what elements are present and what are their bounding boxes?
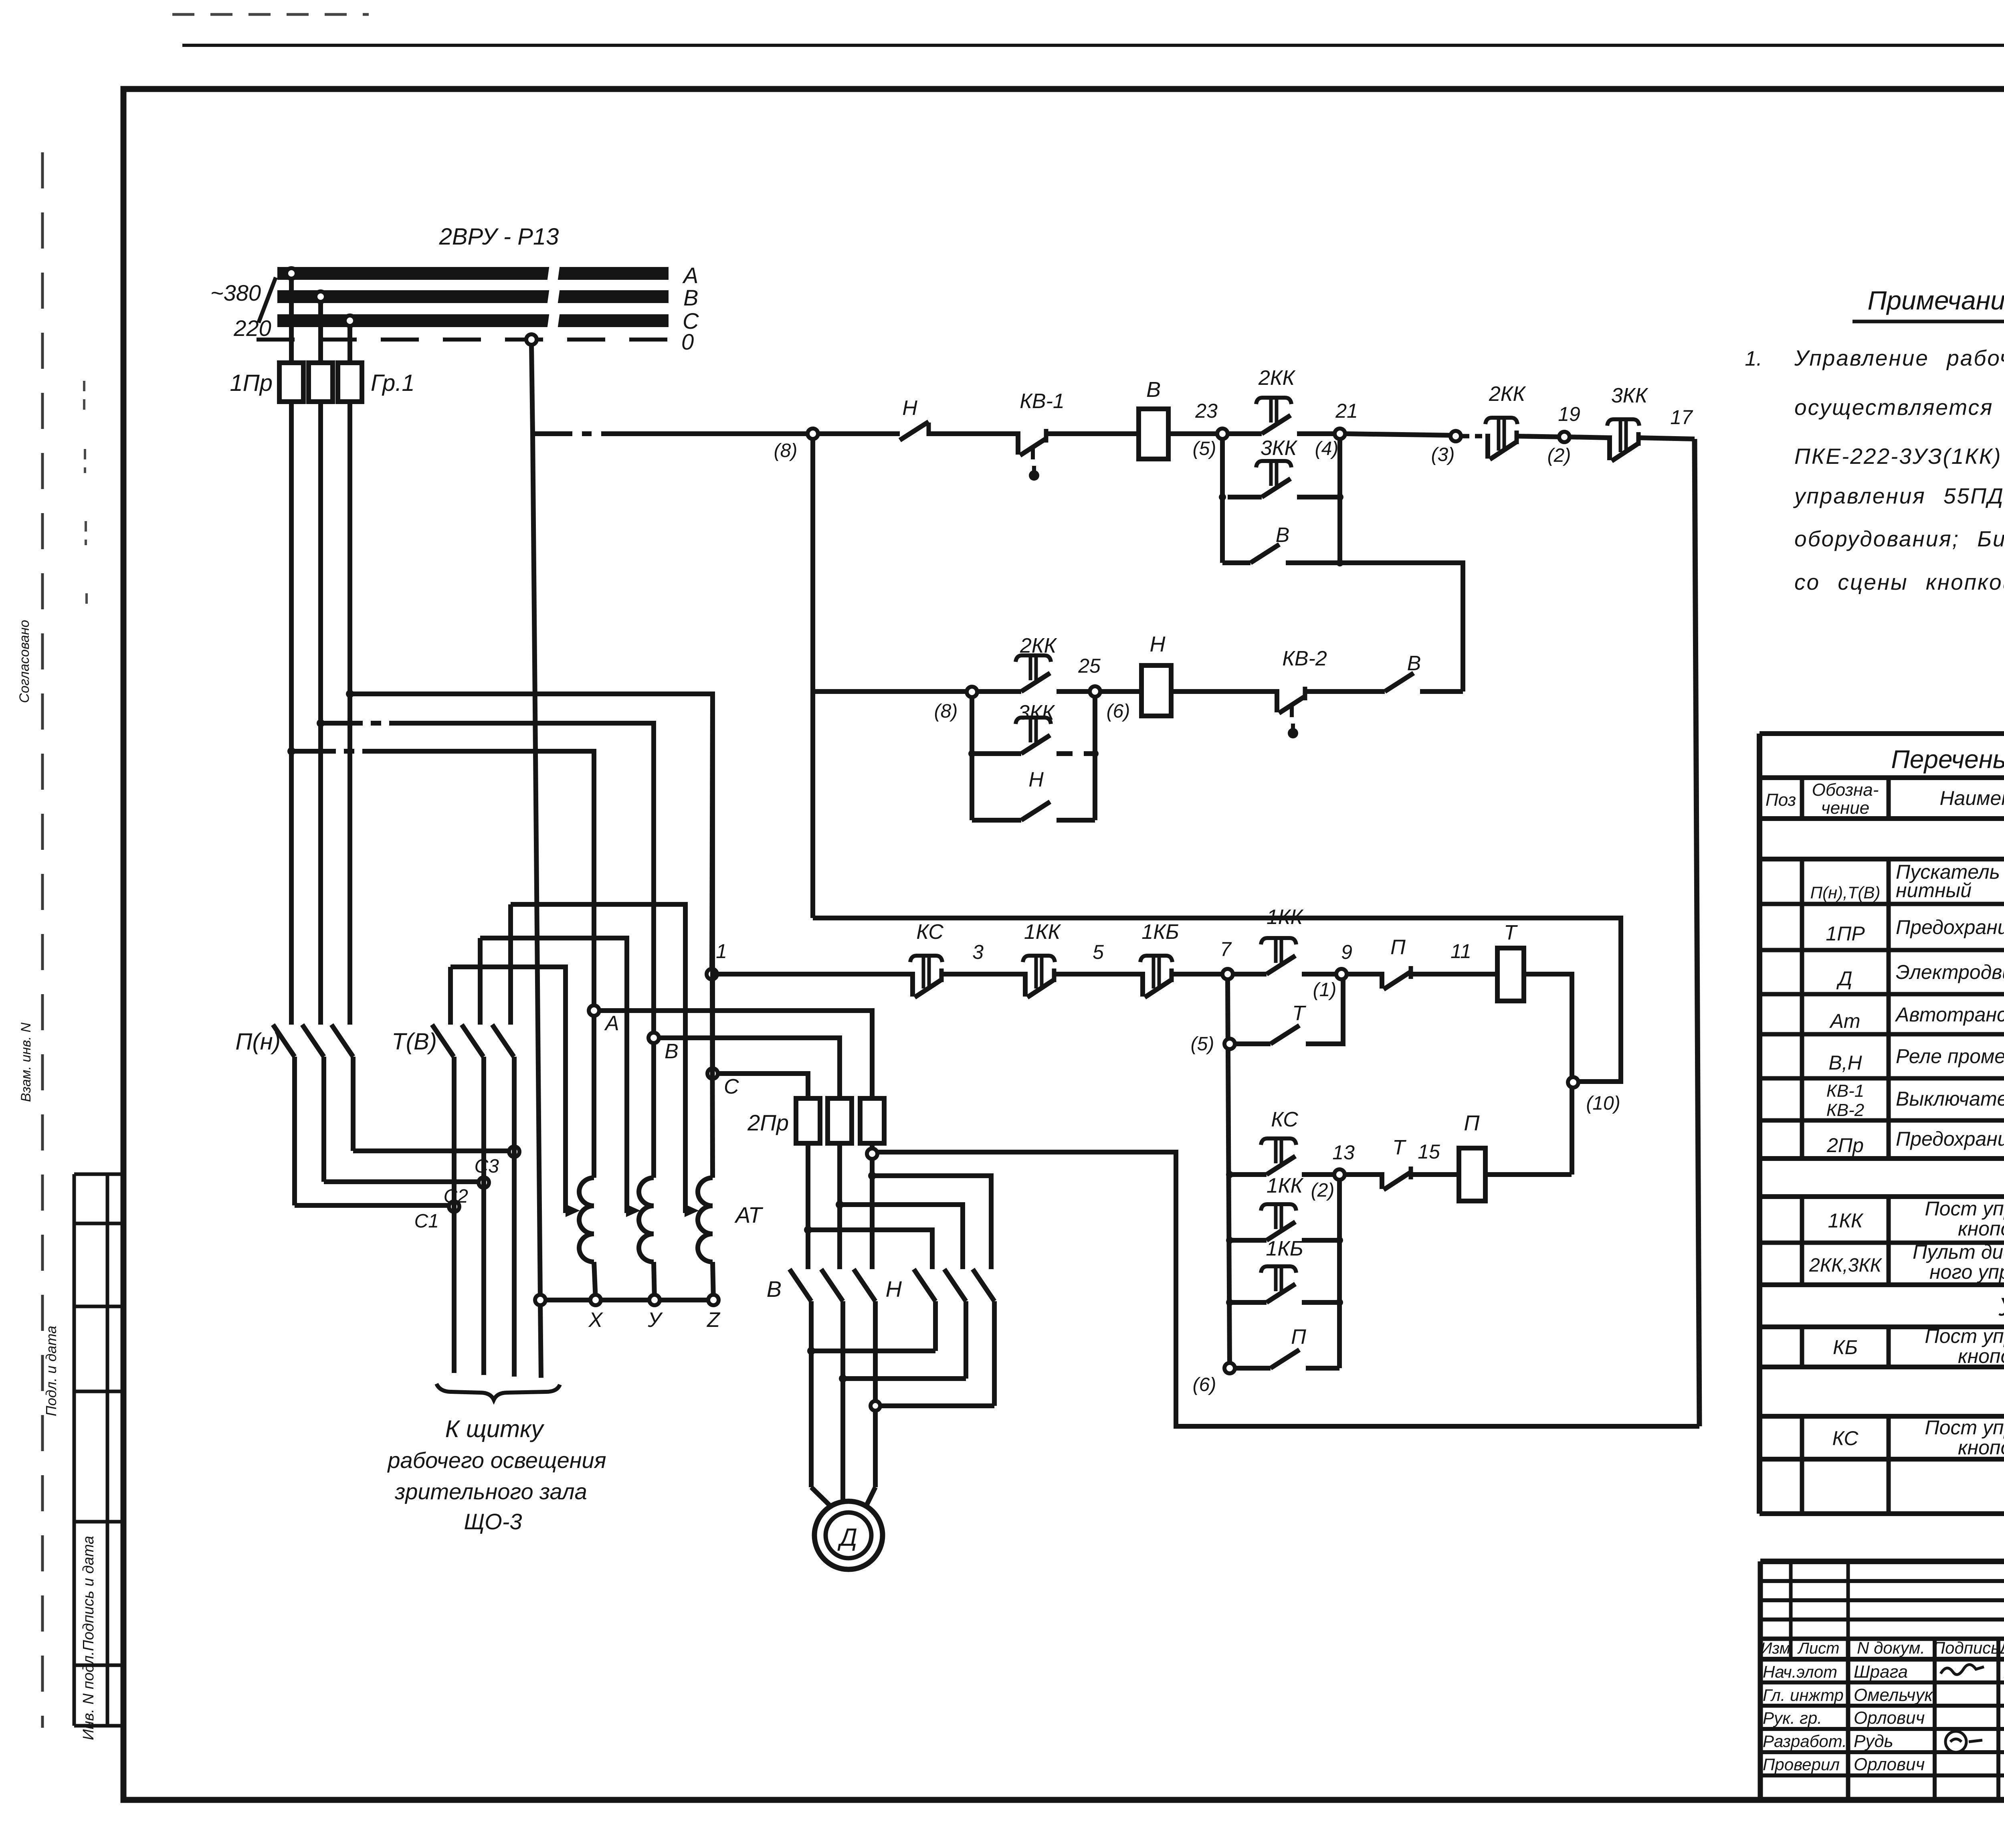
wire lower seg2 (1057, 689, 1095, 694)
svg-text:чение: чение (1821, 798, 1869, 818)
svg-text:(5): (5) (1191, 1033, 1214, 1055)
fuse 1Пр pole3 (338, 363, 362, 402)
relay coil В (1139, 409, 1168, 459)
svg-text:П: П (1464, 1111, 1480, 1135)
svg-text:рабочего освещения: рабочего освещения (387, 1448, 606, 1473)
brace К щитку (436, 1384, 560, 1400)
wire lower branch start (813, 689, 972, 694)
node tap B (315, 291, 326, 302)
wire В3 lower (873, 1301, 878, 1487)
pushbutton 1КБ NO branch (1267, 1284, 1295, 1302)
node (5) rowA (1224, 1039, 1235, 1049)
wire Т(В) pole3 top (508, 904, 513, 1025)
wire T branch left (1235, 1041, 1271, 1046)
wire Н1 feed (808, 1230, 932, 1269)
wire neutral output (540, 1303, 541, 1378)
wire 1КБ branch (1230, 1300, 1267, 1305)
svg-text:Пост управления: Пост управления (1925, 1197, 2004, 1220)
svg-text:Ат: Ат (1829, 1010, 1861, 1032)
svg-text:1КК: 1КК (1267, 906, 1304, 929)
svg-text:7: 7 (1220, 938, 1232, 960)
wire rowA seg1 (941, 972, 1025, 977)
svg-text:(5): (5) (1193, 438, 1216, 459)
wire phase B horizontal (321, 723, 654, 1038)
wire lower seg5 (1305, 689, 1385, 694)
svg-text:Подпись и дата: Подпись и дата (80, 1536, 97, 1651)
svg-text:со сцены кнопкой ПКЕ-722-2У: со сцены кнопкой ПКЕ-722-2УЗ(кс). (1794, 570, 2004, 594)
left stamp grid (74, 1174, 123, 1726)
wire dashes after (3) (1462, 434, 1489, 439)
node 13 (1334, 1169, 1345, 1180)
contact П NC rowA (1380, 972, 1384, 989)
svg-text:Н: Н (886, 1276, 902, 1302)
limit switch КВ-2 (1275, 689, 1279, 712)
svg-text:К щитку: К щитку (445, 1415, 545, 1442)
svg-text:(8): (8) (934, 701, 958, 722)
wire 3КК branch right (1297, 495, 1340, 499)
wire AT coil3 bottom (713, 1262, 713, 1300)
motor Д (814, 1501, 883, 1569)
contactor Т(В) pole3 (492, 1025, 514, 1057)
node tap 0 (526, 334, 537, 345)
wire С down to winding (712, 979, 713, 1178)
wire Т(В) pole2 top (478, 938, 483, 1025)
wire rowB right vertical (1337, 1180, 1342, 1368)
wire 1КК branch (1230, 1238, 1267, 1243)
wire 25 down (1093, 697, 1097, 820)
wire tap link 3 (511, 904, 685, 1213)
svg-text:(2): (2) (1311, 1180, 1335, 1201)
contactor В pole3 (854, 1269, 875, 1301)
wire rowA seg2 (1054, 972, 1143, 977)
svg-text:Взам. инв. N: Взам. инв. N (18, 1023, 34, 1102)
svg-text:3КК: 3КК (1611, 384, 1649, 407)
limit switch КВ-1 (1016, 431, 1020, 455)
svg-text:(8): (8) (774, 440, 798, 461)
wire phase C to row A (712, 694, 713, 969)
svg-text:У: У (647, 1308, 663, 1332)
svg-text:0: 0 (681, 329, 694, 354)
relay coil Н (1141, 665, 1171, 716)
contactor Н pole3 (973, 1269, 994, 1301)
node 3КК branch right (1091, 750, 1099, 757)
wire 3КК lower dashed (1057, 751, 1095, 756)
node (10) (1568, 1077, 1578, 1088)
svg-text:2КК: 2КК (1020, 634, 1058, 657)
node rowB left (1226, 1171, 1233, 1178)
node (3) (1450, 431, 1461, 441)
svg-text:Наименование: Наименование (1939, 787, 2004, 809)
svg-text:Орлович: Орлович (1854, 1708, 1925, 1728)
contact Н NO lower (1021, 802, 1050, 820)
node bus left (535, 1295, 545, 1305)
node Н1 feed (804, 1226, 812, 1234)
svg-text:Предохранитель: Предохранитель (1896, 916, 2004, 938)
AT tap arrow 2 (627, 1208, 635, 1213)
wire С1 link (295, 1203, 454, 1208)
bus bar phase А (277, 266, 669, 281)
svg-text:Шрага: Шрага (1854, 1662, 1908, 1682)
svg-text:П: П (1390, 936, 1406, 959)
svg-text:Пост управления: Пост управления (1925, 1325, 2004, 1347)
node branch left (1219, 493, 1226, 501)
svg-text:Д: Д (1836, 967, 1852, 990)
wire AT coil2 bottom (654, 1262, 655, 1300)
svg-text:(4): (4) (1315, 438, 1339, 459)
wire 3КК branch left (1228, 495, 1262, 499)
node В branch right (1336, 559, 1343, 566)
wire phase C horizontal (350, 694, 713, 1074)
svg-text:А: А (682, 263, 698, 288)
wire fuse 2Пр1 down (806, 1143, 810, 1269)
svg-text:КБ: КБ (1833, 1336, 1858, 1359)
pushbutton КС NC rowA (910, 972, 915, 997)
contactor Т(В) pole2 (462, 1025, 483, 1057)
wire В to fuse2 (659, 1038, 840, 1098)
relay coil Т (1497, 948, 1524, 1001)
pushbutton 3КК NO branch (1262, 479, 1291, 497)
contact В NO branch (1250, 544, 1279, 563)
wire lower seg4 (1171, 689, 1277, 694)
fuse 1Пр pole1 (279, 363, 303, 402)
AT tap arrow 1 (566, 1208, 574, 1213)
node phase A tap (287, 747, 295, 755)
svg-text:Примечания:: Примечания: (1868, 285, 2004, 315)
node 7 (1222, 969, 1233, 979)
svg-text:1: 1 (716, 940, 727, 962)
fuse 2Пр pole3 (860, 1098, 884, 1143)
svg-text:зрительного зала: зрительного зала (394, 1479, 587, 1504)
node 1КБ branch left (1226, 1299, 1233, 1306)
svg-text:Д: Д (837, 1524, 857, 1551)
svg-text:(1): (1) (1313, 979, 1337, 1001)
wire 3КК lower left (972, 751, 1021, 756)
svg-text:Лист: Лист (1797, 1640, 1840, 1657)
bus bar phase В (277, 289, 669, 304)
svg-text:Реле промежуточное: Реле промежуточное (1896, 1045, 2004, 1068)
wire AT star bus (540, 1298, 713, 1302)
svg-text:Рук. гр.: Рук. гр. (1763, 1708, 1822, 1727)
sheet outer border left (faint) (41, 152, 44, 1728)
node А (589, 1005, 599, 1016)
svg-text:2ВРУ - Р13: 2ВРУ - Р13 (439, 224, 559, 250)
wire rowB seg3 (1345, 1172, 1382, 1177)
wire tap link 1 (450, 967, 566, 1213)
wire Н3 feed (872, 1176, 991, 1269)
node С2 (479, 1177, 489, 1188)
neutral bus 0 dashed (257, 338, 669, 342)
wire rowB seg1 (1230, 1172, 1267, 1177)
wire С to fuse1 (718, 1074, 808, 1098)
svg-text:17: 17 (1670, 406, 1693, 429)
node tie1 (807, 1347, 815, 1355)
svg-text:21: 21 (1335, 400, 1358, 422)
node С3 (509, 1146, 519, 1157)
contactor Т(В) pole1 (432, 1025, 454, 1057)
svg-text:Z: Z (706, 1308, 721, 1332)
wire fuse2 down (318, 402, 323, 1025)
svg-text:ПКЕ-222-3УЗ(1КК) и с пульто: ПКЕ-222-3УЗ(1КК) и с пультов дистанционн… (1794, 444, 2004, 469)
node 1КК branch left (1226, 1237, 1233, 1244)
svg-text:У Билетера: У Билетера (1998, 1292, 2004, 1321)
wire rowA seg4 (1233, 972, 1267, 977)
wire phase bottom rail (877, 1152, 1699, 1426)
node (8) top (808, 429, 818, 439)
wire tie1 (811, 1349, 935, 1353)
autotransformer winding 2 (639, 1178, 654, 1262)
wire rowA seg7 (1411, 972, 1497, 977)
svg-text:Инв. N подл.: Инв. N подл. (80, 1651, 97, 1740)
wire lower seg6 (1420, 689, 1463, 694)
equipment table grid (1760, 734, 2004, 1514)
svg-text:Изм: Изм (1761, 1640, 1790, 1657)
svg-text:Управление рабочим освещен: Управление рабочим освещением зрительног… (1794, 346, 2004, 370)
wire Н2 lower (964, 1301, 968, 1379)
wire lower seg3 (1100, 689, 1141, 694)
wire rail seg10 (1638, 438, 1695, 439)
svg-text:ЩО-3: ЩО-3 (464, 1509, 522, 1534)
wire П(н) pole1 lower (292, 1057, 297, 1205)
wire Т(В) pole1 lower (452, 1057, 457, 1373)
node tie2 (839, 1375, 847, 1383)
node tap C (345, 315, 355, 326)
wire Т(В) pole3 lower (512, 1057, 517, 1377)
pushbutton 1КК NO rowA (1267, 956, 1295, 974)
wire fuse1 down (289, 402, 294, 1025)
svg-text:(3): (3) (1431, 444, 1455, 465)
wire Н lower right (1057, 818, 1095, 823)
svg-text:Электродвигатель: Электродвигатель (1896, 961, 2004, 983)
svg-text:АТ: АТ (734, 1202, 764, 1227)
top margin scan dashes (172, 13, 369, 16)
wire rowA seg3 (1172, 972, 1228, 977)
svg-text:Автотрансформатор: Автотрансформатор (1895, 1003, 2004, 1026)
wire tie3 (880, 1403, 994, 1408)
svg-text:11: 11 (1450, 940, 1471, 962)
AT tap arrow 3 (685, 1208, 693, 1213)
wire rail seg5 (1228, 431, 1262, 436)
wire rowB seg4 (1411, 1172, 1459, 1177)
node Н2 feed (836, 1201, 844, 1209)
wire 7 down (1228, 979, 1230, 1368)
wire 1КК branch right (1302, 1238, 1339, 1243)
wire rowB seg2 (1302, 1172, 1339, 1177)
node 1КК branch right (1336, 1237, 1343, 1244)
svg-text:2Пр: 2Пр (747, 1110, 789, 1135)
svg-text:Подл. и дата: Подл. и дата (43, 1326, 59, 1416)
wire В down to winding (651, 1043, 656, 1178)
bus bar phase С (277, 313, 669, 328)
svg-text:3КК: 3КК (1018, 701, 1056, 724)
svg-text:КВ-2: КВ-2 (1282, 647, 1327, 670)
wire П branch right (1306, 1366, 1339, 1371)
node 1КБ branch right (1336, 1299, 1343, 1306)
svg-text:КВ-1: КВ-1 (1826, 1081, 1864, 1101)
pushbutton 1КБ NC rowA (1140, 972, 1145, 997)
node (6) rowB (1224, 1363, 1235, 1373)
pushbutton 2КК NO (1262, 415, 1291, 434)
svg-text:2КК: 2КК (1489, 382, 1527, 406)
node phase B tap (317, 719, 325, 727)
node В (648, 1033, 659, 1043)
svg-text:Т: Т (1504, 921, 1518, 944)
wire С3 link (353, 1148, 514, 1153)
node (8) lower (967, 687, 977, 697)
wire fuse 2Пр3 down (870, 1143, 875, 1269)
wire neutral drop (531, 345, 533, 434)
wire 1КБ branch right (1302, 1300, 1339, 1305)
svg-text:Нач.элот: Нач.элот (1763, 1662, 1837, 1681)
svg-text:Т: Т (1292, 1002, 1306, 1025)
svg-text:1КК: 1КК (1828, 1209, 1864, 1232)
svg-text:В: В (1146, 378, 1161, 402)
pushbutton 2КК NC break (1485, 434, 1490, 459)
wire В1 lower (809, 1301, 814, 1487)
wire T branch right (1306, 979, 1343, 1044)
svg-text:П(н),Т(В): П(н),Т(В) (1810, 883, 1881, 902)
wire phase A horizontal (291, 751, 594, 1011)
pushbutton 1КК NO branch (1267, 1222, 1295, 1240)
wire Н lower left (972, 818, 1021, 823)
title block grid (1760, 1561, 2004, 1800)
fuse 2Пр pole2 (828, 1098, 852, 1143)
svg-text:кнопочный: кнопочный (1958, 1436, 2004, 1459)
node 1 (707, 969, 717, 979)
wire motor lead1 (811, 1487, 830, 1506)
svg-text:220: 220 (233, 315, 271, 341)
wire phase1 bus to fuse (289, 279, 294, 363)
contact П NO branch (1271, 1350, 1299, 1368)
svg-text:23: 23 (1195, 400, 1218, 422)
svg-text:Н: Н (902, 396, 917, 420)
wire tap link 2 (480, 938, 627, 1213)
pushbutton 3КК NO lower (1021, 735, 1050, 754)
wire 23 down (1220, 439, 1225, 563)
contactor Н pole1 (914, 1269, 935, 1301)
svg-text:5: 5 (1093, 941, 1104, 963)
wire top rail left (531, 431, 572, 436)
relay coil П (1459, 1148, 1485, 1201)
wire С2 link (324, 1179, 484, 1184)
svg-text:1КБ: 1КБ (1266, 1237, 1303, 1260)
svg-text:Выключатель конечный: Выключатель конечный (1896, 1088, 2004, 1110)
node 25 (1090, 686, 1100, 697)
svg-text:КС: КС (1832, 1427, 1859, 1450)
svg-text:9: 9 (1341, 941, 1352, 963)
svg-text:Н: Н (1150, 632, 1166, 656)
svg-text:(6): (6) (1107, 701, 1130, 722)
svg-text:С3: С3 (475, 1156, 499, 1177)
svg-text:13: 13 (1332, 1141, 1355, 1164)
autotransformer winding 1 (579, 1178, 594, 1262)
wire rail seg8 (1517, 436, 1564, 437)
svg-text:Гр.1: Гр.1 (371, 370, 415, 396)
wire Н2 feed (840, 1205, 963, 1269)
svg-text:1КК: 1КК (1024, 920, 1062, 944)
wire rowA seg6 (1347, 972, 1382, 977)
contactor П(н) pole3 (331, 1025, 353, 1057)
fuse 2Пр pole1 (796, 1098, 820, 1143)
svg-text:1Пр: 1Пр (230, 370, 273, 396)
svg-text:25: 25 (1078, 655, 1101, 677)
svg-text:2Пр: 2Пр (1826, 1134, 1864, 1157)
svg-text:КС: КС (1271, 1108, 1298, 1131)
svg-text:КВ-1: КВ-1 (1020, 390, 1065, 413)
node tap A (286, 268, 297, 279)
contactor Н pole2 (944, 1269, 966, 1301)
wire phase3 bus to fuse (347, 326, 352, 363)
svg-text:управления 55ПДУ (2КК,3КК): управления 55ПДУ (2КК,3КК) кинотехнологи… (1793, 483, 2004, 508)
node С (707, 1068, 718, 1079)
svg-text:В: В (1407, 652, 1421, 675)
svg-text:3КК: 3КК (1261, 437, 1298, 460)
svg-text:КС: КС (916, 920, 943, 944)
wire rail seg3 (1046, 431, 1139, 436)
node tie3 (871, 1401, 880, 1411)
contactor П(н) pole2 (302, 1025, 324, 1057)
svg-text:(6): (6) (1193, 1374, 1216, 1395)
svg-text:Предохранитель: Предохранитель (1896, 1128, 2004, 1150)
svg-text:осуществляется : из кинопр: осуществляется : из кинопроекционной кно… (1794, 395, 2004, 420)
wire Т(В) pole2 lower (481, 1057, 486, 1375)
pushbutton КС NO rowB (1267, 1156, 1295, 1175)
wire branch to lower (1340, 563, 1463, 691)
svg-text:А: А (604, 1012, 619, 1035)
pushbutton 1КК NC rowA (1023, 972, 1028, 997)
wire phase2 bus to fuse (318, 302, 323, 363)
svg-text:Т: Т (1392, 1136, 1406, 1159)
wire rail seg4 (1168, 431, 1222, 436)
wire 21 down (1337, 439, 1342, 563)
wire В branch right (1286, 560, 1340, 565)
node 23 (1217, 429, 1228, 439)
node 21 (1335, 429, 1345, 439)
svg-text:оборудования; Билетером кноп: оборудования; Билетером кнопкой ПКЕ-722-… (1794, 526, 2004, 551)
wire rowA seg5 (1302, 972, 1341, 977)
node 9 (1336, 969, 1347, 979)
svg-text:Орлович: Орлович (1854, 1755, 1925, 1774)
node С1 (449, 1201, 459, 1212)
svg-text:П: П (1291, 1325, 1306, 1349)
contactor В pole2 (821, 1269, 843, 1301)
wire neutral loop (813, 918, 1621, 1082)
svg-text:кнопочный: кнопочный (1958, 1217, 2004, 1240)
label ~380/220 (210, 277, 276, 341)
svg-text:1КК: 1КК (1267, 1174, 1304, 1197)
svg-text:кнопочный: кнопочный (1958, 1345, 2004, 1367)
wire В2 lower (840, 1301, 845, 1502)
svg-text:1КБ: 1КБ (1141, 920, 1179, 944)
contact Н NC top (900, 422, 929, 440)
wire rowA seg0 (717, 972, 913, 977)
wire (8) vertical (810, 439, 815, 918)
svg-text:Подпись: Подпись (1933, 1638, 2000, 1657)
wire rail seg6 (1297, 431, 1340, 436)
wire phase vertical 17 (1695, 439, 1699, 1426)
svg-text:ного управления: ного управления (1929, 1261, 2004, 1283)
node Н3 feed (868, 1172, 876, 1180)
wire motor lead3 (866, 1487, 875, 1506)
pushbutton 3КК NC break (1607, 435, 1612, 460)
pushbutton 2КК NO lower (1021, 673, 1050, 691)
svg-text:15: 15 (1418, 1140, 1440, 1163)
svg-text:~380: ~380 (210, 280, 261, 305)
node Z (708, 1295, 719, 1305)
node X (590, 1295, 601, 1305)
wire П(н) pole2 lower (321, 1057, 326, 1182)
svg-text:(2): (2) (1547, 445, 1571, 466)
svg-text:Обозна-: Обозна- (1812, 780, 1879, 800)
